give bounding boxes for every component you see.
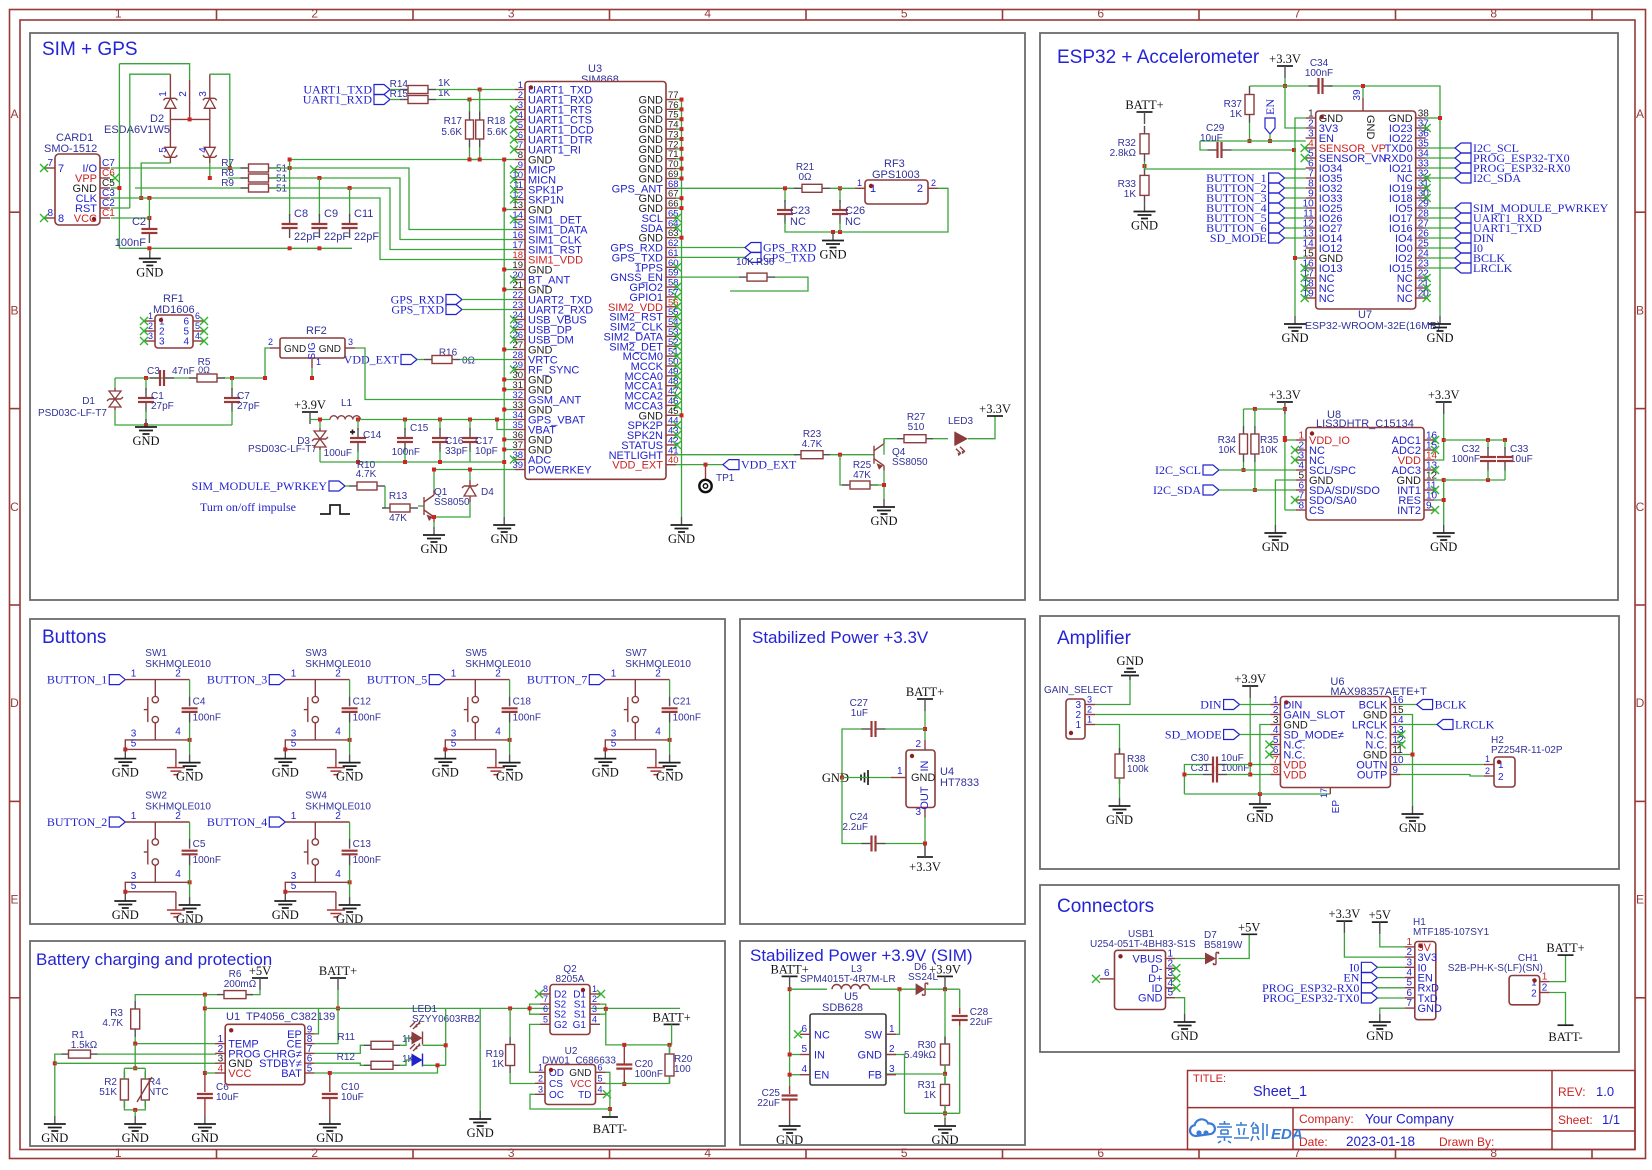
svg-text:2: 2 [335, 669, 341, 680]
wire SW4 bottom rail [285, 881, 350, 883]
svg-text:1: 1 [291, 669, 297, 680]
power flag +3.9V out [937, 975, 953, 977]
svg-text:100nF: 100nF [635, 1069, 663, 1080]
svg-text:1: 1 [291, 811, 297, 822]
svg-text:Company:: Company: [1299, 1112, 1354, 1126]
ground SW1 left [124, 751, 126, 759]
svg-text:10pF: 10pF [475, 446, 498, 457]
svg-text:33pF: 33pF [445, 446, 468, 457]
pulse waveform symbol [320, 505, 350, 514]
svg-text:I2C_SCL: I2C_SCL [1155, 463, 1201, 477]
svg-text:+3.3V: +3.3V [1428, 388, 1460, 402]
power flag BATT+ battery out [664, 1023, 680, 1025]
svg-text:LIS3DHTR_C15134: LIS3DHTR_C15134 [1316, 418, 1414, 430]
svg-text:4: 4 [175, 869, 181, 880]
wire U3 left gnd bus [503, 160, 505, 518]
ground SW7 right [669, 755, 671, 763]
net flag BUTTON_6 [1269, 223, 1285, 233]
net flag I2C_SDA accel [1203, 485, 1219, 495]
capacitor C5 100nF [189, 822, 191, 839]
power flag BATT+ 3v3 section [917, 698, 933, 700]
svg-text:510: 510 [908, 422, 925, 433]
wire I/O row to R7 [111, 167, 247, 169]
svg-text:Sheet_1: Sheet_1 [1253, 1084, 1307, 1100]
ground left 39 [789, 1118, 791, 1126]
svg-text:3: 3 [1087, 695, 1092, 705]
svg-text:3: 3 [592, 1004, 597, 1014]
svg-text:10K: 10K [1260, 445, 1278, 456]
switch SW5 contacts [474, 680, 476, 697]
section box SIM + GPS [30, 33, 1025, 600]
svg-text:1K: 1K [924, 1090, 937, 1101]
wire +3.9V rail [310, 419, 330, 421]
svg-text:1: 1 [115, 7, 122, 21]
wire U6 GND pins right [1400, 715, 1412, 807]
ground C10 [329, 1116, 331, 1124]
svg-text:10uF: 10uF [1200, 133, 1223, 144]
net flag VDD_EXT right [723, 460, 739, 470]
ground SW4 left [284, 893, 286, 901]
svg-text:PROG_ESP32-TX0: PROG_ESP32-TX0 [1263, 991, 1360, 1005]
svg-text:GND: GND [122, 1131, 149, 1145]
svg-text:C: C [10, 500, 19, 514]
svg-text:100nF: 100nF [1452, 454, 1480, 465]
svg-text:1K: 1K [1230, 109, 1243, 120]
svg-text:100nF: 100nF [353, 855, 381, 866]
wire Q4 emitter to GND [883, 471, 885, 499]
svg-text:4: 4 [218, 1064, 224, 1075]
svg-text:1: 1 [451, 669, 457, 680]
wire U7 pin1 GND bus left [1295, 118, 1306, 316]
svg-text:SW4: SW4 [305, 791, 327, 802]
svg-text:6: 6 [598, 1062, 603, 1072]
ground filter row [145, 419, 147, 427]
svg-text:5: 5 [195, 321, 200, 331]
svg-text:R18: R18 [487, 116, 506, 127]
svg-text:1: 1 [158, 91, 169, 97]
wire C18 to ground [509, 740, 511, 755]
wire FB pin row [886, 1073, 945, 1075]
wire DIN to chip [1240, 704, 1271, 706]
svg-text:5: 5 [307, 1064, 313, 1075]
svg-text:47nF: 47nF [172, 366, 195, 377]
wire R30 to FB node [944, 1065, 946, 1074]
svg-text:MAX98357AETE+T: MAX98357AETE+T [1330, 686, 1427, 698]
net flag BUTTON_5 [429, 675, 445, 685]
regulator U4 HT7833 [906, 750, 935, 808]
svg-text:1: 1 [1075, 720, 1081, 731]
svg-text:4: 4 [704, 7, 711, 21]
svg-text:GND: GND [1399, 821, 1426, 835]
svg-text:8: 8 [1298, 501, 1304, 512]
wire SW3 bottom rail [285, 739, 350, 741]
svg-text:SW7: SW7 [625, 648, 647, 659]
wire BUTTON_4 top rail [285, 821, 349, 823]
svg-text:100nF: 100nF [193, 713, 221, 724]
net flag PROG_ESP32-RX0 [1426, 167, 1455, 169]
svg-text:A: A [10, 107, 18, 121]
svg-text:Battery charging and protectio: Battery charging and protection [36, 950, 272, 969]
svg-text:3: 3 [148, 331, 153, 341]
svg-text:GND: GND [1426, 331, 1453, 345]
U7 top pin 39 GND [1362, 98, 1364, 111]
svg-text:8: 8 [1273, 765, 1279, 776]
power flag BATT- CH1 [1558, 1024, 1574, 1026]
svg-text:E: E [1636, 893, 1644, 907]
ground SW7 left [604, 751, 606, 759]
svg-text:1: 1 [1542, 972, 1548, 983]
svg-text:SIM + GPS: SIM + GPS [42, 39, 138, 60]
svg-text:GND: GND [1106, 813, 1133, 827]
svg-text:B: B [1636, 303, 1644, 317]
svg-text:3: 3 [348, 337, 353, 347]
svg-text:22pF: 22pF [294, 231, 319, 243]
svg-text:SW3: SW3 [305, 648, 327, 659]
svg-text:GND: GND [656, 770, 683, 784]
net flag UART1_RXD esp [1426, 217, 1455, 219]
power flag BATT+ battery [330, 977, 346, 979]
svg-text:+3.3V: +3.3V [1269, 52, 1301, 66]
svg-text:5: 5 [158, 147, 169, 153]
svg-text:VDD_EXT: VDD_EXT [741, 458, 797, 472]
svg-text:1uF: 1uF [851, 708, 868, 719]
svg-text:LRCLK: LRCLK [1473, 261, 1513, 275]
svg-text:GND: GND [272, 908, 299, 922]
svg-text:SD_MODE: SD_MODE [1165, 728, 1222, 742]
wire LED3 to +3.3V [968, 416, 995, 439]
net flag UART1_TXD esp [1426, 227, 1455, 229]
svg-text:C15: C15 [410, 423, 429, 434]
svg-text:7: 7 [543, 994, 548, 1004]
wire BUTTON_2 top rail [125, 821, 189, 823]
wire VCC pin row [205, 1072, 217, 1074]
section box Amplifier [1040, 616, 1619, 869]
svg-text:4: 4 [592, 1014, 597, 1024]
net flag I0 esp [1426, 247, 1455, 249]
svg-text:+3.3V: +3.3V [979, 402, 1011, 416]
svg-text:4.7K: 4.7K [802, 439, 823, 450]
svg-text:HT7833: HT7833 [940, 777, 979, 789]
svg-text:NC: NC [1397, 293, 1413, 305]
svg-text:1: 1 [592, 984, 597, 994]
svg-text:Connectors: Connectors [1057, 896, 1154, 917]
section box Stabilized Power +3.3V [740, 619, 1025, 924]
svg-text:0Ω: 0Ω [462, 356, 476, 367]
svg-text:7: 7 [58, 163, 64, 175]
test point TP1 [705, 465, 707, 480]
wire +5V to 5V H1 [1380, 934, 1405, 947]
svg-text:GND: GND [1138, 993, 1163, 1005]
svg-text:GND: GND [136, 266, 163, 280]
svg-text:7: 7 [47, 158, 53, 169]
svg-text:C3: C3 [147, 366, 160, 377]
svg-text:7: 7 [1406, 998, 1412, 1009]
wire IN EN pins from BATT+ [790, 1054, 800, 1056]
capacitor C26 NC [839, 188, 841, 202]
ground right 39 [944, 1118, 946, 1126]
svg-text:TD: TD [578, 1090, 591, 1101]
wire D7 to +5V [1219, 934, 1250, 958]
svg-text:VDD_EXT: VDD_EXT [612, 460, 663, 472]
svg-text:C21: C21 [673, 697, 692, 708]
power flag BATT+ ESP32 [1137, 111, 1153, 113]
capacitor C15 100nF [404, 420, 406, 431]
svg-text:5.6K: 5.6K [441, 127, 462, 138]
svg-text:EN: EN [814, 1070, 829, 1082]
svg-text:47K: 47K [389, 513, 407, 524]
svg-text:DIN: DIN [1200, 698, 1222, 712]
svg-text:D: D [10, 696, 19, 710]
svg-text:SW5: SW5 [465, 648, 487, 659]
IC U6 MAX98357AETE+T [1280, 697, 1390, 788]
svg-text:OUT: OUT [919, 786, 931, 810]
svg-text:5.6K: 5.6K [487, 127, 508, 138]
wire CH1 pin1 to BATT+ [1550, 955, 1566, 982]
svg-text:POWERKEY: POWERKEY [528, 465, 592, 477]
wire R17 R18 to GND rail pin8 [470, 147, 480, 160]
svg-text:+3.3V: +3.3V [909, 860, 941, 874]
wire EP and gnd rail amp [1184, 793, 1330, 795]
svg-text:+5V: +5V [1369, 908, 1391, 922]
wire GND row to pin3 [55, 1062, 217, 1064]
svg-text:SIM_MODULE_PWRKEY: SIM_MODULE_PWRKEY [192, 479, 328, 493]
wire D2 right bottom to R8 row [209, 163, 211, 178]
svg-text:FB: FB [868, 1070, 882, 1082]
svg-text:22uF: 22uF [970, 1017, 993, 1028]
wire BATT+ rail 39 [789, 988, 791, 1086]
svg-text:3: 3 [889, 1064, 895, 1075]
net flag UART1_TXD [374, 85, 390, 95]
svg-text:2.8kΩ: 2.8kΩ [1110, 148, 1137, 159]
power flag +5V battery [252, 977, 268, 979]
section box ESP32 + Accelerometer [1040, 33, 1618, 600]
wire U6 pin3 GND down [1260, 725, 1271, 795]
ground SW4 red small [335, 902, 337, 910]
svg-text:100nF: 100nF [115, 237, 146, 249]
ground accel left [1274, 525, 1276, 533]
svg-text:UART1_RXD: UART1_RXD [303, 93, 373, 107]
power flag BATT+ CH1 [1558, 954, 1574, 956]
svg-text:VDD: VDD [1283, 770, 1306, 782]
svg-text:C9: C9 [324, 208, 338, 220]
svg-text:100nF: 100nF [673, 713, 701, 724]
svg-text:51: 51 [276, 184, 288, 195]
svg-text:47K: 47K [853, 470, 871, 481]
wire R6 left to R3 and VCC bus [135, 995, 217, 1001]
wire R9 out to SIM1_RST [270, 188, 515, 250]
capacitor C4 100nF [189, 680, 191, 697]
wire RST to D2 left top [111, 207, 130, 209]
svg-text:4: 4 [335, 727, 341, 738]
switch SW3 contacts [314, 680, 316, 697]
svg-text:2: 2 [175, 811, 181, 822]
wire U7 right GND pin38 [1426, 117, 1440, 119]
wire BUTTON_7 top rail [605, 679, 669, 681]
wire +3.3V to VDD pin14 [1434, 414, 1444, 460]
svg-text:BUTTON_1: BUTTON_1 [47, 673, 107, 687]
ground U7 right [1439, 316, 1441, 324]
ground GPS_ANT rail [832, 233, 834, 241]
ground SW2 red small [175, 902, 177, 910]
svg-text:GND: GND [1116, 654, 1143, 668]
ground SW1 right [189, 755, 191, 763]
svg-text:BATT+: BATT+ [319, 964, 357, 978]
capacitor C21 100nF [669, 680, 671, 697]
capacitor C16 33pF [439, 420, 441, 431]
wire GND branch battery [479, 1008, 481, 1111]
wire accel GND pin5 [1275, 480, 1296, 525]
svg-text:GND: GND [316, 1131, 343, 1145]
svg-text:GND: GND [1364, 115, 1376, 140]
ground H1 [1379, 1014, 1381, 1022]
svg-text:R11: R11 [337, 1032, 355, 1043]
wire bottom rail 39 [905, 1112, 960, 1114]
net flag LRCLK amp [1400, 724, 1437, 726]
ground SW2 right [189, 897, 191, 905]
capacitor C7 27pF [231, 378, 233, 390]
logo JLC EDA [1190, 1119, 1215, 1136]
svg-text:5: 5 [598, 1073, 603, 1083]
net flag BUTTON_2 [109, 817, 125, 827]
resistor R36 10K [676, 276, 739, 278]
svg-text:C8: C8 [294, 208, 308, 220]
svg-text:NC: NC [814, 1029, 830, 1041]
ground SW3 red small [335, 760, 337, 768]
svg-text:2: 2 [335, 811, 341, 822]
ground SW3 left [284, 751, 286, 759]
wire C12 to ground [349, 740, 351, 755]
ground U3 left bus [503, 517, 505, 525]
svg-text:39: 39 [1352, 89, 1363, 101]
wire C13 to ground [349, 882, 351, 897]
net flag PROG_ESP32-RX0 [1361, 983, 1377, 993]
svg-text:2: 2 [311, 1146, 318, 1160]
svg-text:I2C_SDA: I2C_SDA [1153, 483, 1201, 497]
svg-text:GND: GND [336, 770, 363, 784]
svg-text:BATT+: BATT+ [652, 1010, 690, 1024]
svg-text:5: 5 [131, 739, 137, 750]
svg-text:2: 2 [175, 669, 181, 680]
capacitor C23 NC [784, 188, 786, 202]
ground left battery [54, 1116, 56, 1124]
svg-text:TP1: TP1 [716, 473, 735, 484]
wire SW1 bottom rail [125, 739, 190, 741]
switch SW2 contacts [154, 822, 156, 839]
svg-text:PZ254R-11-02P: PZ254R-11-02P [1491, 745, 1563, 756]
wire U7 pin15 GND [1295, 257, 1306, 259]
svg-text:2: 2 [1531, 989, 1537, 1000]
wire I2C_SCL to SCL/SPC [1219, 469, 1296, 471]
wire SW4 pin5 rail [285, 891, 336, 893]
section box Battery charging and protection [30, 941, 725, 1146]
wire NTC node down [134, 1044, 136, 1069]
svg-text:A: A [1636, 107, 1644, 121]
svg-text:BATT+: BATT+ [1125, 98, 1163, 112]
IC U7 ESP32-WROOM-32E [1316, 111, 1416, 309]
svg-text:S2B-PH-K-S(LF)(SN): S2B-PH-K-S(LF)(SN) [1448, 963, 1543, 974]
svg-text:NC: NC [1319, 293, 1335, 305]
wire BATT+ down to CE [315, 990, 338, 1044]
svg-text:5: 5 [901, 1146, 908, 1160]
svg-text:LRCLK: LRCLK [1455, 718, 1495, 732]
svg-text:PSD03C-LF-T7: PSD03C-LF-T7 [38, 408, 107, 419]
svg-text:BUTTON_4: BUTTON_4 [207, 815, 267, 829]
power flag +3.3V conn [1336, 920, 1352, 922]
svg-text:G1: G1 [573, 1020, 587, 1031]
svg-text:BATT-: BATT- [593, 1122, 627, 1136]
wire cap rail bottom and GND bus [1434, 480, 1444, 525]
wire NETLIGHT to R23 [676, 454, 797, 456]
svg-text:6: 6 [195, 311, 200, 321]
net flag GPS_RXD right [676, 247, 745, 249]
svg-text:2: 2 [1087, 705, 1092, 715]
wire Q4 collector to R27 [883, 439, 885, 455]
svg-text:NTC: NTC [148, 1087, 169, 1098]
svg-text:C2: C2 [132, 216, 146, 228]
wire Q2 G2 to U2 OD [530, 1024, 540, 1072]
wire R19 to CS [510, 1073, 535, 1084]
svg-text:6: 6 [543, 1004, 548, 1014]
svg-text:SS8050: SS8050 [434, 497, 470, 508]
svg-text:C4: C4 [193, 697, 206, 708]
svg-text:INT2: INT2 [1397, 505, 1421, 517]
filter row: wire [115, 377, 265, 379]
net flag BUTTON_1 [109, 675, 125, 685]
svg-text:CS: CS [549, 1079, 563, 1090]
net flag I2C_SDA esp [1426, 177, 1455, 179]
net flag BUTTON_2 [1269, 183, 1285, 193]
svg-text:+3.9V: +3.9V [294, 398, 326, 412]
svg-text:GND: GND [432, 766, 459, 780]
svg-text:GND: GND [1430, 540, 1457, 554]
net flag BUTTON_7 [589, 675, 605, 685]
svg-text:GND: GND [668, 532, 695, 546]
svg-text:22pF: 22pF [354, 231, 379, 243]
power flag +3.9V [302, 411, 318, 413]
svg-text:+3.9V: +3.9V [929, 962, 961, 976]
svg-text:GND: GND [819, 248, 846, 262]
svg-text:CS: CS [1309, 505, 1324, 517]
svg-text:27pF: 27pF [237, 401, 260, 412]
svg-text:NC: NC [845, 216, 861, 228]
svg-text:GND: GND [569, 1068, 591, 1079]
svg-text:2: 2 [178, 91, 189, 97]
net flag I2C_SCL accel [1203, 465, 1219, 475]
svg-text:10K: 10K [736, 257, 754, 268]
svg-text:4: 4 [655, 727, 661, 738]
svg-text:BATT+: BATT+ [1546, 941, 1584, 955]
wire VDD_IO to +3.3V [1285, 439, 1296, 441]
net flag VDD_EXT to VRTC [401, 355, 417, 365]
svg-text:GND: GND [870, 514, 897, 528]
svg-text:GND: GND [336, 912, 363, 926]
svg-text:5: 5 [451, 739, 457, 750]
svg-text:GND: GND [1281, 331, 1308, 345]
svg-text:5: 5 [801, 1044, 807, 1055]
svg-text:D1: D1 [82, 396, 95, 407]
svg-text:4.7K: 4.7K [356, 469, 377, 480]
wire L3 to SW and D6 [870, 988, 916, 990]
ground flag sideways 3v3 [868, 777, 891, 779]
wire C21 to ground [669, 740, 671, 755]
wire Q2 S2 pins to rail [530, 1004, 540, 1014]
svg-text:GND: GND [132, 434, 159, 448]
wire D2 right top to I/O row [210, 74, 230, 168]
svg-text:2: 2 [148, 321, 153, 331]
ground U3 right bus [681, 517, 683, 525]
svg-text:5: 5 [291, 739, 297, 750]
net flag DIN esp [1426, 237, 1455, 239]
